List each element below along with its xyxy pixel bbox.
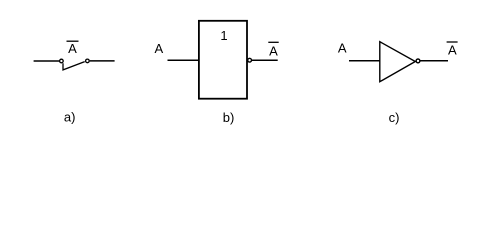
wire input lead to IEC NOT gate U1 bbox=[168, 59, 200, 61]
wire output lead from U1 bbox=[252, 59, 278, 61]
svg-text:A: A bbox=[269, 43, 278, 58]
wire left lead of switch S1 bbox=[34, 60, 60, 62]
svg-text:a): a) bbox=[64, 110, 76, 125]
wire right lead of switch S1 bbox=[90, 60, 115, 62]
switch S1 movable arm bbox=[63, 62, 85, 70]
inversion bubble on U1 output bbox=[248, 58, 252, 62]
switch S1 left contact terminal bbox=[60, 59, 64, 63]
node A-bar label over switch bbox=[67, 41, 79, 56]
wire input lead to ANSI NOT gate U2 bbox=[349, 60, 380, 62]
svg-text:A: A bbox=[68, 41, 77, 56]
svg-text:A: A bbox=[338, 41, 347, 56]
wire output lead from U2 bbox=[420, 60, 448, 62]
switch S1 right contact terminal bbox=[86, 59, 90, 63]
node A-bar label at U1 output bbox=[268, 42, 278, 58]
svg-text:A: A bbox=[448, 43, 457, 58]
svg-text:b): b) bbox=[223, 110, 235, 125]
svg-text:1: 1 bbox=[220, 28, 227, 43]
node A-bar label at U2 output bbox=[447, 42, 458, 58]
inversion bubble on U2 output bbox=[416, 59, 420, 63]
svg-text:c): c) bbox=[389, 110, 400, 125]
svg-text:A: A bbox=[154, 41, 163, 56]
NOT gate U2 (ANSI triangle) bbox=[380, 42, 416, 82]
NOT gate U1 (IEC box with function label 1) bbox=[199, 21, 247, 99]
